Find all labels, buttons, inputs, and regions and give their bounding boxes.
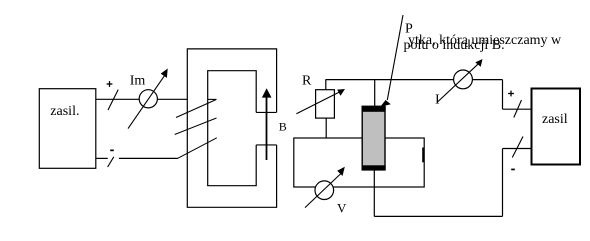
node - (right supply minus terminal) [511, 169, 515, 171]
wire right vertical upper [502, 80, 504, 110]
svg-text:zasil.: zasil. [50, 104, 79, 119]
break slash on bottom wire [108, 157, 114, 167]
power supply box PS2 (zasil) [532, 89, 581, 165]
svg-text:R: R [302, 73, 312, 88]
wire plus terminal lead [503, 108, 532, 110]
ammeter I arrow [438, 63, 480, 102]
svg-text:V: V [337, 200, 347, 215]
wire top right (R to I meter) [326, 79, 503, 81]
break slash on plus lead [514, 100, 522, 118]
svg-text:B: B [279, 120, 287, 134]
coil winding slash B [175, 118, 217, 135]
wire diagonal lead into coil [178, 138, 217, 159]
coil winding slash A with tick [176, 100, 216, 118]
svg-text:Im: Im [130, 73, 146, 88]
pointer arrow P [387, 15, 403, 100]
wire bottom left (supply return, broken) [96, 157, 108, 159]
electromagnet core inner window with air gap [208, 71, 257, 186]
air gap upper pole face [256, 111, 276, 113]
svg-text:polu o indukcji B.: polu o indukcji B. [404, 38, 505, 53]
wire minus terminal lead [503, 148, 532, 150]
ammeter Im arrow [128, 76, 164, 129]
break slash on top wire [108, 90, 118, 110]
node - (left supply minus terminal) [110, 150, 114, 152]
node + (right supply plus terminal) [508, 91, 514, 97]
wire bottom right [374, 215, 502, 217]
wire probe top lead [374, 80, 376, 107]
ammeter Im [139, 90, 157, 108]
ammeter I [454, 70, 473, 89]
Hall probe top contact [362, 106, 386, 112]
wire R top lead [325, 80, 327, 90]
power supply box PS1 (zasil.) [39, 89, 96, 169]
wire right vertical lower [502, 149, 504, 217]
svg-text:zasil: zasil [542, 112, 568, 127]
air gap lower pole face [256, 144, 276, 146]
rheostat R [316, 90, 335, 118]
Hall probe bottom contact [362, 165, 386, 170]
node + (left supply plus terminal) [107, 81, 113, 87]
wire R bottom lead [325, 118, 327, 138]
voltmeter V arrow [305, 173, 342, 208]
rheostat R arrow [296, 92, 339, 113]
voltage loop rectangle [294, 138, 424, 187]
tick on loop right edge [422, 148, 424, 163]
electromagnet core outer boundary with air gap [187, 49, 276, 207]
Hall probe body [362, 106, 385, 170]
break slash on minus lead [512, 137, 523, 158]
voltmeter V [315, 181, 334, 200]
wire top left (supply to magnet coil) [96, 98, 188, 100]
wire probe bottom lead [373, 170, 375, 216]
flux arrow B [266, 94, 268, 160]
svg-text:I: I [435, 93, 440, 108]
